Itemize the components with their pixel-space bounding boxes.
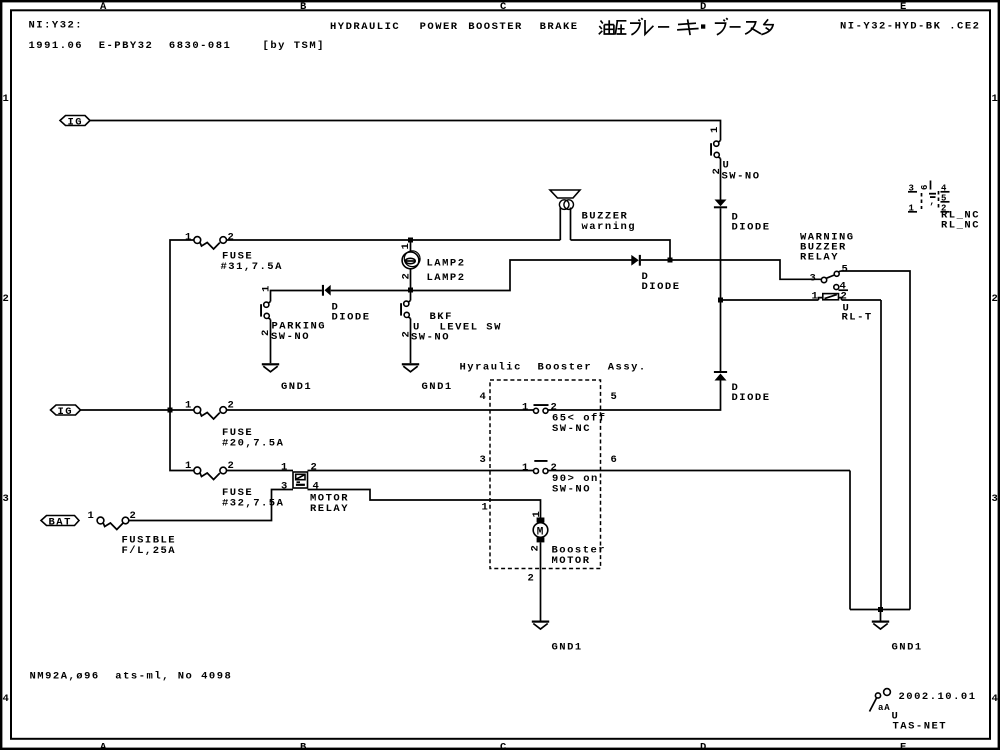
fuse F20 bbox=[185, 400, 284, 450]
svg-text:BOOSTER: BOOSTER bbox=[468, 21, 523, 33]
svg-text:1: 1 bbox=[522, 402, 530, 414]
svg-text:2002.10.01: 2002.10.01 bbox=[899, 691, 977, 703]
zone numbers right bbox=[992, 93, 1000, 705]
booster assy dashed box bbox=[490, 380, 601, 569]
svg-text:6: 6 bbox=[920, 184, 930, 190]
svg-text:5: 5 bbox=[611, 391, 619, 403]
wire D4 to booster pin5 bbox=[601, 381, 721, 411]
diode D1 (left) bbox=[322, 285, 411, 324]
fusible link F/L bbox=[88, 510, 177, 557]
svg-text:SW-NO: SW-NO bbox=[552, 484, 591, 496]
switch 65off SW-NC bbox=[522, 402, 607, 436]
svg-text:GND1: GND1 bbox=[422, 381, 453, 393]
svg-text:DIODE: DIODE bbox=[732, 392, 771, 404]
zone numbers left bbox=[3, 93, 11, 705]
diode D4 (up) bbox=[714, 371, 771, 404]
svg-text:2: 2 bbox=[841, 291, 849, 303]
switch PARKING SW-NO bbox=[260, 284, 326, 363]
wire net B to relay contact bbox=[641, 260, 821, 279]
svg-text:2: 2 bbox=[992, 293, 1000, 305]
kanji 圧 bbox=[615, 21, 626, 35]
svg-text:3: 3 bbox=[810, 273, 818, 285]
wire fuse32 to motor relay pin1 bbox=[227, 470, 294, 472]
wire D3 to junction coil bbox=[720, 208, 722, 300]
svg-text:BRAKE: BRAKE bbox=[540, 21, 579, 33]
relay coil RL-T bbox=[721, 291, 882, 324]
svg-text:E: E bbox=[900, 742, 908, 750]
bottom right sign icon bbox=[870, 689, 891, 713]
switch 90on SW-NO bbox=[522, 460, 850, 496]
svg-text:B: B bbox=[300, 1, 308, 13]
svg-text:#31,7.5A: #31,7.5A bbox=[221, 261, 283, 273]
wire parking row y290 bbox=[271, 291, 322, 302]
svg-text:4: 4 bbox=[992, 693, 1000, 705]
svg-text:IG: IG bbox=[58, 406, 74, 418]
svg-text:1: 1 bbox=[185, 400, 193, 412]
svg-text:warning: warning bbox=[582, 221, 637, 233]
wire junction coil to diode D4 bbox=[720, 300, 722, 371]
svg-text:1991.06 E-PBY32 6830-081: 1991.06 E-PBY32 6830-081 [by TSM] bbox=[29, 40, 325, 52]
svg-text:4: 4 bbox=[3, 693, 11, 705]
node junction lamp bottom (410.5,290) bbox=[408, 288, 413, 293]
svg-text:RL-T: RL-T bbox=[842, 312, 873, 324]
svg-text:SW-NO: SW-NO bbox=[722, 171, 761, 183]
svg-text:NM92A,ø96 ats-ml, No 4098: NM92A,ø96 ats-ml, No 4098 bbox=[30, 671, 233, 683]
wire IG1 to SW-NO bbox=[90, 121, 721, 141]
svg-text:IG: IG bbox=[68, 117, 84, 129]
svg-text:2: 2 bbox=[401, 272, 413, 280]
wire contact5 to right riser bbox=[841, 271, 911, 610]
svg-text:1: 1 bbox=[709, 125, 721, 133]
katakana ブ bbox=[630, 18, 643, 35]
svg-text:1: 1 bbox=[992, 93, 1000, 105]
wire pin6 riser bbox=[849, 471, 851, 610]
svg-text:GND1: GND1 bbox=[281, 381, 312, 393]
node junction lamp top (410.5,240) bbox=[408, 238, 413, 243]
katakana タ bbox=[761, 19, 773, 34]
svg-text:B: B bbox=[300, 742, 308, 750]
wire fuse20 to booster pin4 bbox=[227, 409, 534, 411]
nakaguro dot bbox=[701, 24, 705, 28]
svg-text:1: 1 bbox=[3, 93, 11, 105]
svg-text:1: 1 bbox=[522, 462, 530, 474]
svg-text:GND1: GND1 bbox=[892, 642, 923, 654]
buzzer BUZZER warning bbox=[550, 190, 636, 240]
katakana ブ bbox=[715, 18, 728, 35]
svg-text:SW-NO: SW-NO bbox=[271, 331, 310, 343]
svg-text:3: 3 bbox=[480, 454, 488, 466]
motor Booster MOTOR bbox=[530, 510, 607, 621]
node junction (670,260) bbox=[668, 258, 673, 263]
svg-text:F/L,25A: F/L,25A bbox=[122, 545, 177, 557]
svg-text:Hyraulic Booster Assy.: Hyraulic Booster Assy. bbox=[460, 362, 647, 374]
svg-text:DIODE: DIODE bbox=[332, 312, 371, 324]
svg-text:2: 2 bbox=[3, 293, 11, 305]
fuse F32 bbox=[185, 460, 284, 509]
svg-text:GND1: GND1 bbox=[552, 642, 583, 654]
ground GND1 right bbox=[872, 610, 923, 654]
svg-text:4: 4 bbox=[480, 391, 488, 403]
svg-text:1: 1 bbox=[812, 291, 820, 303]
svg-text:POWER: POWER bbox=[420, 21, 459, 33]
wire IG2 to fuse20 bbox=[81, 409, 194, 411]
wire SW to diode D3 bbox=[720, 159, 722, 200]
wire relay pin4 to motor pin1 bbox=[308, 490, 541, 518]
svg-text:A: A bbox=[100, 742, 108, 750]
svg-text:2: 2 bbox=[528, 573, 536, 585]
svg-text:C: C bbox=[500, 1, 508, 13]
svg-text:DIODE: DIODE bbox=[732, 222, 771, 234]
wire left riser x170 bbox=[170, 240, 194, 410]
svg-text:SW-NC: SW-NC bbox=[552, 423, 591, 435]
svg-text:1: 1 bbox=[281, 462, 289, 474]
katakana ー bbox=[658, 26, 669, 28]
svg-text:LAMP2: LAMP2 bbox=[427, 258, 466, 270]
title japanese (vector strokes) bbox=[599, 18, 773, 35]
svg-text:1: 1 bbox=[261, 284, 273, 292]
wire lamp bottom to step bbox=[411, 260, 632, 291]
svg-text:1: 1 bbox=[185, 232, 193, 244]
node junction (880.5,609.5) bbox=[878, 607, 883, 612]
svg-text:MOTOR: MOTOR bbox=[552, 555, 591, 567]
tag BAT bbox=[41, 516, 79, 529]
svg-text:M: M bbox=[537, 526, 544, 538]
tag IG row1 bbox=[60, 116, 90, 129]
svg-text:A: A bbox=[100, 1, 108, 13]
ground GND1 bkf bbox=[402, 363, 453, 393]
svg-text:DIODE: DIODE bbox=[642, 281, 681, 293]
fuse F31 bbox=[185, 232, 283, 273]
zone letters top bbox=[100, 1, 908, 13]
svg-text:RELAY: RELAY bbox=[800, 252, 839, 264]
node junction (720.5,300) bbox=[718, 298, 723, 303]
diode D3 (down) bbox=[714, 200, 771, 234]
svg-text:TAS-NET: TAS-NET bbox=[893, 721, 948, 733]
relay WARNING BUZZER RELAY contact bbox=[800, 232, 855, 293]
svg-text:6: 6 bbox=[611, 454, 619, 466]
brake switch SW-NO top right U1 bbox=[709, 125, 761, 182]
diode D2 (right) bbox=[631, 255, 680, 293]
katakana ー bbox=[730, 26, 741, 28]
switch BKF LEVEL SW bbox=[400, 291, 502, 364]
wire BAT to relay pin3 bbox=[129, 490, 293, 521]
svg-text:BAT: BAT bbox=[49, 517, 72, 529]
svg-text:LAMP2: LAMP2 bbox=[427, 272, 466, 284]
svg-text:3: 3 bbox=[281, 481, 289, 493]
svg-text:1: 1 bbox=[185, 460, 193, 472]
svg-text:,: , bbox=[930, 197, 936, 207]
svg-text:2: 2 bbox=[228, 232, 236, 244]
wire relay pin2 to booster pin3 bbox=[308, 470, 534, 472]
svg-text:1: 1 bbox=[482, 502, 490, 514]
booster pin labels bbox=[480, 391, 619, 585]
wire buzzer right lead down bbox=[571, 240, 671, 260]
ground GND1 parking bbox=[262, 363, 312, 393]
zone letters bottom bbox=[100, 742, 908, 750]
katakana ス bbox=[745, 22, 761, 34]
svg-text:HYDRAULIC: HYDRAULIC bbox=[330, 21, 400, 33]
kanji 油 bbox=[599, 21, 603, 35]
katakana レ bbox=[645, 20, 653, 34]
svg-text:2: 2 bbox=[311, 462, 319, 474]
svg-text:SW-NO: SW-NO bbox=[411, 332, 450, 344]
ground GND1 motor bbox=[532, 621, 583, 654]
katakana キ bbox=[677, 19, 699, 35]
lamp LAMP2 bbox=[400, 240, 466, 290]
wire gnd bar right bbox=[850, 609, 910, 611]
svg-text:4: 4 bbox=[313, 481, 321, 493]
svg-text:RL_NC: RL_NC bbox=[941, 220, 980, 232]
tag IG row2 bbox=[51, 405, 81, 418]
node junction (170,410) bbox=[168, 408, 173, 413]
relay MOTOR RELAY box bbox=[281, 462, 349, 515]
svg-text:#32,7.5A: #32,7.5A bbox=[222, 497, 284, 509]
svg-text:aA: aA bbox=[878, 703, 890, 713]
svg-text:1: 1 bbox=[531, 510, 543, 518]
wire riser to fuse32 bbox=[170, 410, 194, 471]
svg-text:NI:Y32:: NI:Y32: bbox=[29, 20, 84, 32]
wire coil pin2 riser bbox=[880, 300, 882, 610]
svg-text:NI-Y32-HYD-BK .CE2: NI-Y32-HYD-BK .CE2 bbox=[840, 21, 980, 33]
wire fuse31 to lamp junction to buzzer bbox=[227, 239, 561, 241]
svg-text:5: 5 bbox=[842, 264, 850, 276]
svg-text:#20,7.5A: #20,7.5A bbox=[222, 437, 284, 449]
svg-text:RELAY: RELAY bbox=[310, 503, 349, 515]
svg-text:E: E bbox=[900, 1, 908, 13]
mini pinout RL_NC top right bbox=[908, 181, 980, 232]
svg-text:C: C bbox=[500, 742, 508, 750]
svg-text:1: 1 bbox=[88, 510, 96, 522]
svg-text:D: D bbox=[700, 742, 708, 750]
svg-text:3: 3 bbox=[992, 493, 1000, 505]
svg-text:3: 3 bbox=[3, 493, 11, 505]
svg-text:D: D bbox=[700, 1, 708, 13]
